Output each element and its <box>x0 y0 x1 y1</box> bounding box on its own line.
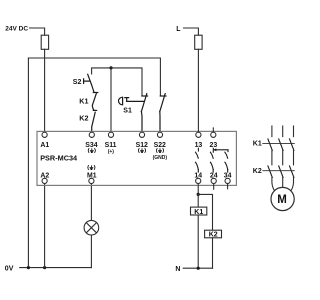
motor M <box>271 187 294 210</box>
wire 0V rail horizontal top (y=58) <box>28 58 160 96</box>
terminal 23 <box>211 132 216 137</box>
contactor K2 blades <box>268 166 294 177</box>
svg-text:PSR-MC34: PSR-MC34 <box>40 154 78 163</box>
wire K2 to N <box>212 238 214 268</box>
wire 24VDC label dash <box>30 28 45 35</box>
contactor K1 blades <box>268 139 294 150</box>
contact K2 feedback <box>92 112 96 132</box>
leads into motor <box>272 177 275 190</box>
wire N line <box>183 267 212 269</box>
svg-text:L: L <box>176 26 181 33</box>
svg-text:A2: A2 <box>40 173 49 180</box>
stub below 34 <box>227 184 229 189</box>
wire 14 down <box>197 184 199 208</box>
emergency stop S1 mushroom head <box>119 97 145 105</box>
wire fuse to 13 <box>197 49 199 132</box>
svg-text:A1: A1 <box>40 142 49 149</box>
wire S11 down <box>110 68 112 132</box>
svg-text:(GND): (GND) <box>153 155 168 161</box>
ground mark under S22 <box>156 149 163 153</box>
svg-text:M: M <box>277 194 287 206</box>
terminal 13 <box>196 132 201 137</box>
internal contact 33-34 <box>225 150 228 172</box>
stub above 23 <box>212 128 214 132</box>
terminal S22 <box>157 132 162 137</box>
svg-text:N: N <box>175 266 180 273</box>
wire K1 to N <box>197 215 199 268</box>
terminal M1 <box>89 178 94 183</box>
svg-text:K1: K1 <box>253 141 262 148</box>
relay box PSR-MC34 <box>37 131 236 185</box>
svg-text:0V: 0V <box>5 266 14 273</box>
terminal 24 <box>211 178 216 183</box>
wire M1 down to lamp <box>90 184 92 221</box>
svg-text:K2: K2 <box>209 232 218 239</box>
wire fuse to A1 <box>44 49 46 132</box>
svg-text:K2: K2 <box>253 168 262 175</box>
terminal S11 <box>108 132 113 137</box>
wire S11 plus rail (y=68) <box>92 68 142 96</box>
terminal 14 <box>196 178 201 183</box>
contact K1 feedback <box>92 94 96 111</box>
terminal A1 <box>42 132 47 137</box>
junction dot 14 branch <box>197 193 200 196</box>
lamp P1 <box>84 220 99 235</box>
internal contact 23-24 <box>210 148 213 172</box>
junction dot S11 rail <box>109 66 112 69</box>
svg-text:S1: S1 <box>123 108 132 115</box>
svg-text:M1: M1 <box>87 173 97 180</box>
svg-text:S2: S2 <box>73 79 82 86</box>
wire branch to K2 column <box>198 194 212 230</box>
S1 contact 1 (S12 channel) <box>141 94 147 133</box>
K1 linkage <box>263 142 295 144</box>
ground mark under S12 <box>138 149 145 153</box>
three phase lead 3 <box>293 126 295 137</box>
ground mark above M1 <box>88 166 95 170</box>
svg-text:K1: K1 <box>79 96 88 105</box>
svg-text:24V DC: 24V DC <box>5 26 28 33</box>
coil K2 <box>205 230 222 238</box>
fuse F2 (L) <box>195 35 202 49</box>
terminal S12 <box>139 132 144 137</box>
terminal 34 <box>225 178 230 183</box>
svg-text:K2: K2 <box>79 113 88 122</box>
three phase lead 2 <box>282 126 284 137</box>
svg-text:S12: S12 <box>136 142 148 149</box>
junction dot 0V/A2 <box>43 266 46 269</box>
wire A2 down to 0V <box>44 184 46 268</box>
stub below 24 <box>213 184 215 190</box>
wire left 0V rail vertical <box>27 58 29 268</box>
junction dot N/K1 <box>197 267 200 270</box>
svg-text:24: 24 <box>210 173 218 180</box>
mid leads <box>272 150 294 164</box>
svg-text:K1: K1 <box>194 209 203 216</box>
svg-text:14: 14 <box>194 173 202 180</box>
fuse F1 (24V) <box>41 35 48 49</box>
wire 0V bottom line <box>20 267 92 269</box>
ground mark under S34 <box>88 149 95 153</box>
three phase lead 1 <box>271 126 273 137</box>
S1 linkage line <box>127 100 145 102</box>
internal jumper arrow 23 to 34 <box>215 149 228 151</box>
switch S2 reset contact <box>84 74 98 92</box>
junction dot 0V/left rail <box>27 266 30 269</box>
S1 contact 2 (S22 channel) <box>160 94 166 133</box>
coil K1 <box>191 207 207 215</box>
svg-text:(+): (+) <box>108 149 115 155</box>
svg-text:S22: S22 <box>154 142 166 149</box>
svg-text:34: 34 <box>224 173 232 180</box>
wire lamp to 0V <box>90 235 92 268</box>
svg-text:S34: S34 <box>85 142 97 149</box>
terminal S34 <box>89 132 94 137</box>
internal contact 13-14 <box>196 148 199 172</box>
K2 linkage <box>263 170 295 172</box>
terminal A2 <box>42 178 47 183</box>
